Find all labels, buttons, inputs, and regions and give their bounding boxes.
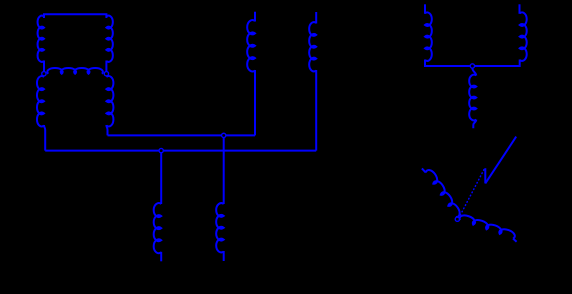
arrow shaft (rotation pointer) (485, 137, 516, 184)
wire L3 bottom stub (160, 252, 162, 261)
node F (rotor junction) (455, 217, 459, 221)
node C (middle bus junction) (222, 133, 226, 137)
wire L2 down to bottom bus (315, 70, 317, 151)
winding W3 (horizontal coil, bumps up) (47, 68, 103, 74)
wire W4 to node E horizontal (425, 60, 470, 67)
wire W6 bottom stub (473, 120, 476, 129)
winding R1 (slanted coil 54deg, bumps upper-right) (426, 170, 460, 217)
winding W1b (lower-left vertical coil, bumps left) (37, 76, 44, 126)
wire rotor coil R2 tail stub (513, 239, 517, 242)
wire top-left horizontal (44, 14, 106, 18)
winding R2 (slanted coil 20deg, bumps up) (460, 215, 515, 238)
wire node C down to coil L4 (crosses bottom bus) (223, 138, 225, 204)
wire node D down to coil L3 (160, 153, 162, 204)
winding L4 (bottom coil at x=224, bumps left) (216, 203, 224, 252)
wire L1 down to middle bus (254, 70, 256, 135)
wire W1b down to bottom bus (44, 125, 45, 151)
winding W2a (upper-right vertical coil, bumps right) (106, 16, 112, 62)
wire coil W5 top stub (519, 4, 521, 14)
wire middle bus left segment (108, 134, 222, 136)
node B (104, 72, 108, 76)
node D (bottom bus junction) (159, 148, 163, 152)
wire W5 to node E horizontal (475, 60, 520, 67)
dotted link from arrow to node F (460, 170, 484, 216)
winding L2 (center-right vertical coil, bumps left) (309, 22, 316, 71)
wire coil L1 top stub (254, 12, 256, 22)
winding W2b (lower-right vertical coil, bumps right) (106, 76, 113, 126)
wire bottom bus right segment (164, 150, 317, 152)
wire bottom bus left segment (45, 150, 159, 152)
node E (470, 64, 474, 68)
wire W2b down to middle bus (106, 125, 107, 135)
arrow barb (484, 168, 486, 183)
wire W1a to node A (43, 61, 45, 72)
wire coil L2 top stub (315, 12, 317, 24)
winding W1a (upper-left vertical coil, bumps left) (38, 16, 44, 62)
node A (42, 72, 46, 76)
winding W5 (right-group right coil, bumps right) (520, 12, 527, 60)
winding W6 (hanging coil below node E, bumps left) (469, 75, 476, 121)
winding L3 (bottom coil at x=161, bumps left) (154, 203, 162, 253)
wire rotor coil R1 input stub (422, 168, 426, 172)
wire W2a to node B (105, 61, 107, 72)
winding L1 (center-left vertical coil, bumps left) (247, 20, 255, 71)
wire middle bus right segment (226, 134, 255, 136)
wire L4 bottom stub (223, 251, 225, 261)
wire node E to coil W6 (472, 68, 476, 75)
wire coil W4 top stub (424, 4, 426, 14)
winding W4 (right-group left coil, bumps right) (425, 12, 432, 60)
